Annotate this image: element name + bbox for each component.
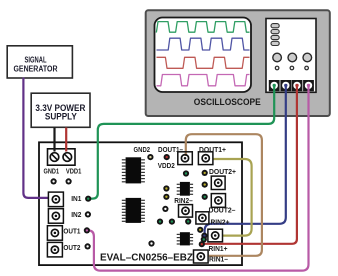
svg-text:RIN2+: RIN2+ [211, 219, 230, 226]
svg-text:GND2: GND2 [134, 147, 151, 154]
power supply box [31, 93, 90, 127]
test point mid board 3 [162, 206, 168, 212]
wire red CH3 to RIN1 point [204, 85, 297, 244]
IC U3 (SOIC-8) [177, 182, 193, 196]
waveform trace red [157, 57, 250, 68]
test point DOUT2- [202, 194, 208, 200]
wire black power supply to GND1 [53, 128, 55, 152]
test point mid board 1 [163, 185, 169, 191]
connector RIN1- [194, 250, 209, 263]
test point IN1 (green wire end) [85, 196, 91, 202]
connector DOUT1- [178, 152, 193, 165]
svg-text:DOUT2+: DOUT2+ [209, 169, 236, 176]
svg-text:SUPPLY: SUPPLY [45, 112, 77, 122]
wire red power supply to VDD1 [65, 128, 67, 152]
svg-text:GND1: GND1 [44, 169, 60, 176]
IC U4 (SOIC-8) [177, 232, 193, 245]
waveform trace magenta [157, 75, 250, 86]
wire magenta CH4 to OUT1 test point [87, 85, 309, 271]
svg-text:OUT1: OUT1 [63, 228, 80, 235]
panel buttons [271, 24, 279, 46]
svg-text:VDD2: VDD2 [158, 163, 175, 170]
test point mid board 2 [163, 194, 169, 200]
test point dark [201, 236, 207, 242]
svg-text:OUT2: OUT2 [63, 245, 80, 252]
connector OUT2 [47, 242, 62, 257]
waveform trace green [156, 22, 249, 33]
test point row left [157, 219, 163, 225]
wire purple signal generator to IN1 [23, 78, 48, 198]
connector OUT1 [47, 226, 62, 241]
test point OUT2 [85, 243, 91, 249]
test point blue wire end [201, 233, 207, 239]
oscilloscope body [146, 10, 330, 116]
svg-text:DOUT1+: DOUT1+ [199, 147, 226, 154]
connector DOUT2- [211, 194, 225, 208]
terminal block [48, 149, 76, 165]
test point GND2 [147, 154, 153, 160]
test point row mid [169, 219, 175, 225]
test point DOUT2+ [202, 182, 208, 188]
connector RIN2 mid [208, 229, 223, 242]
test point VDD1 [66, 178, 72, 184]
eval board outline [39, 142, 242, 265]
oscilloscope front panel [266, 19, 316, 93]
IC U2 (ADuM isolator) [122, 198, 145, 223]
test point OUT1 (magenta wire end) [84, 227, 90, 233]
wire blue CH2 to RIN2 point [205, 85, 286, 235]
wire green CH1 to IN1 test point [90, 85, 275, 199]
IC U1 (ADuM isolator) [122, 157, 145, 183]
svg-text:RIN2–: RIN2– [174, 198, 193, 205]
connector RIN2+ [196, 212, 209, 224]
panel knobs [273, 53, 312, 62]
connector DOUT1+ [198, 152, 213, 165]
svg-text:EVAL–CN0256–EBZ: EVAL–CN0256–EBZ [100, 253, 194, 264]
connector RIN2- [179, 205, 193, 218]
svg-text:GENERATOR: GENERATOR [14, 64, 59, 74]
test point IN2 [85, 211, 91, 217]
svg-text:IN2: IN2 [71, 212, 81, 219]
signal generator box [7, 46, 72, 78]
connector IN1 [48, 192, 63, 207]
BNC connectors CH1-CH4 [269, 80, 314, 91]
test point below DOUT1+ [202, 170, 208, 176]
oscilloscope screen [155, 18, 252, 93]
test point red wire start [199, 241, 205, 247]
waveform trace blue [157, 38, 250, 50]
test point bottom middle [148, 240, 154, 246]
test point row right [185, 218, 191, 224]
svg-text:RIN1+: RIN1+ [209, 246, 228, 253]
svg-text:VDD1: VDD1 [66, 169, 82, 176]
connector IN2 [48, 209, 63, 224]
test point GND1 [51, 178, 57, 184]
test point VDD2 [164, 154, 170, 160]
wire olive DOUT1+ to RIN2+ [213, 159, 252, 236]
svg-text:DOUT1–: DOUT1– [158, 147, 183, 154]
connector DOUT2+ [211, 176, 225, 189]
svg-text:IN1: IN1 [71, 196, 81, 203]
test point RIN2+ yellow [197, 227, 203, 233]
test point below DOUT1- [183, 170, 189, 176]
svg-text:RIN1–: RIN1– [209, 256, 228, 263]
terminal screws [50, 153, 71, 162]
panel small knobs [275, 66, 308, 70]
svg-text:OSCILLOSCOPE: OSCILLOSCOPE [194, 97, 261, 107]
svg-text:DOUT2–: DOUT2– [209, 207, 236, 214]
wire tan DOUT1- to RIN1- [186, 134, 262, 256]
